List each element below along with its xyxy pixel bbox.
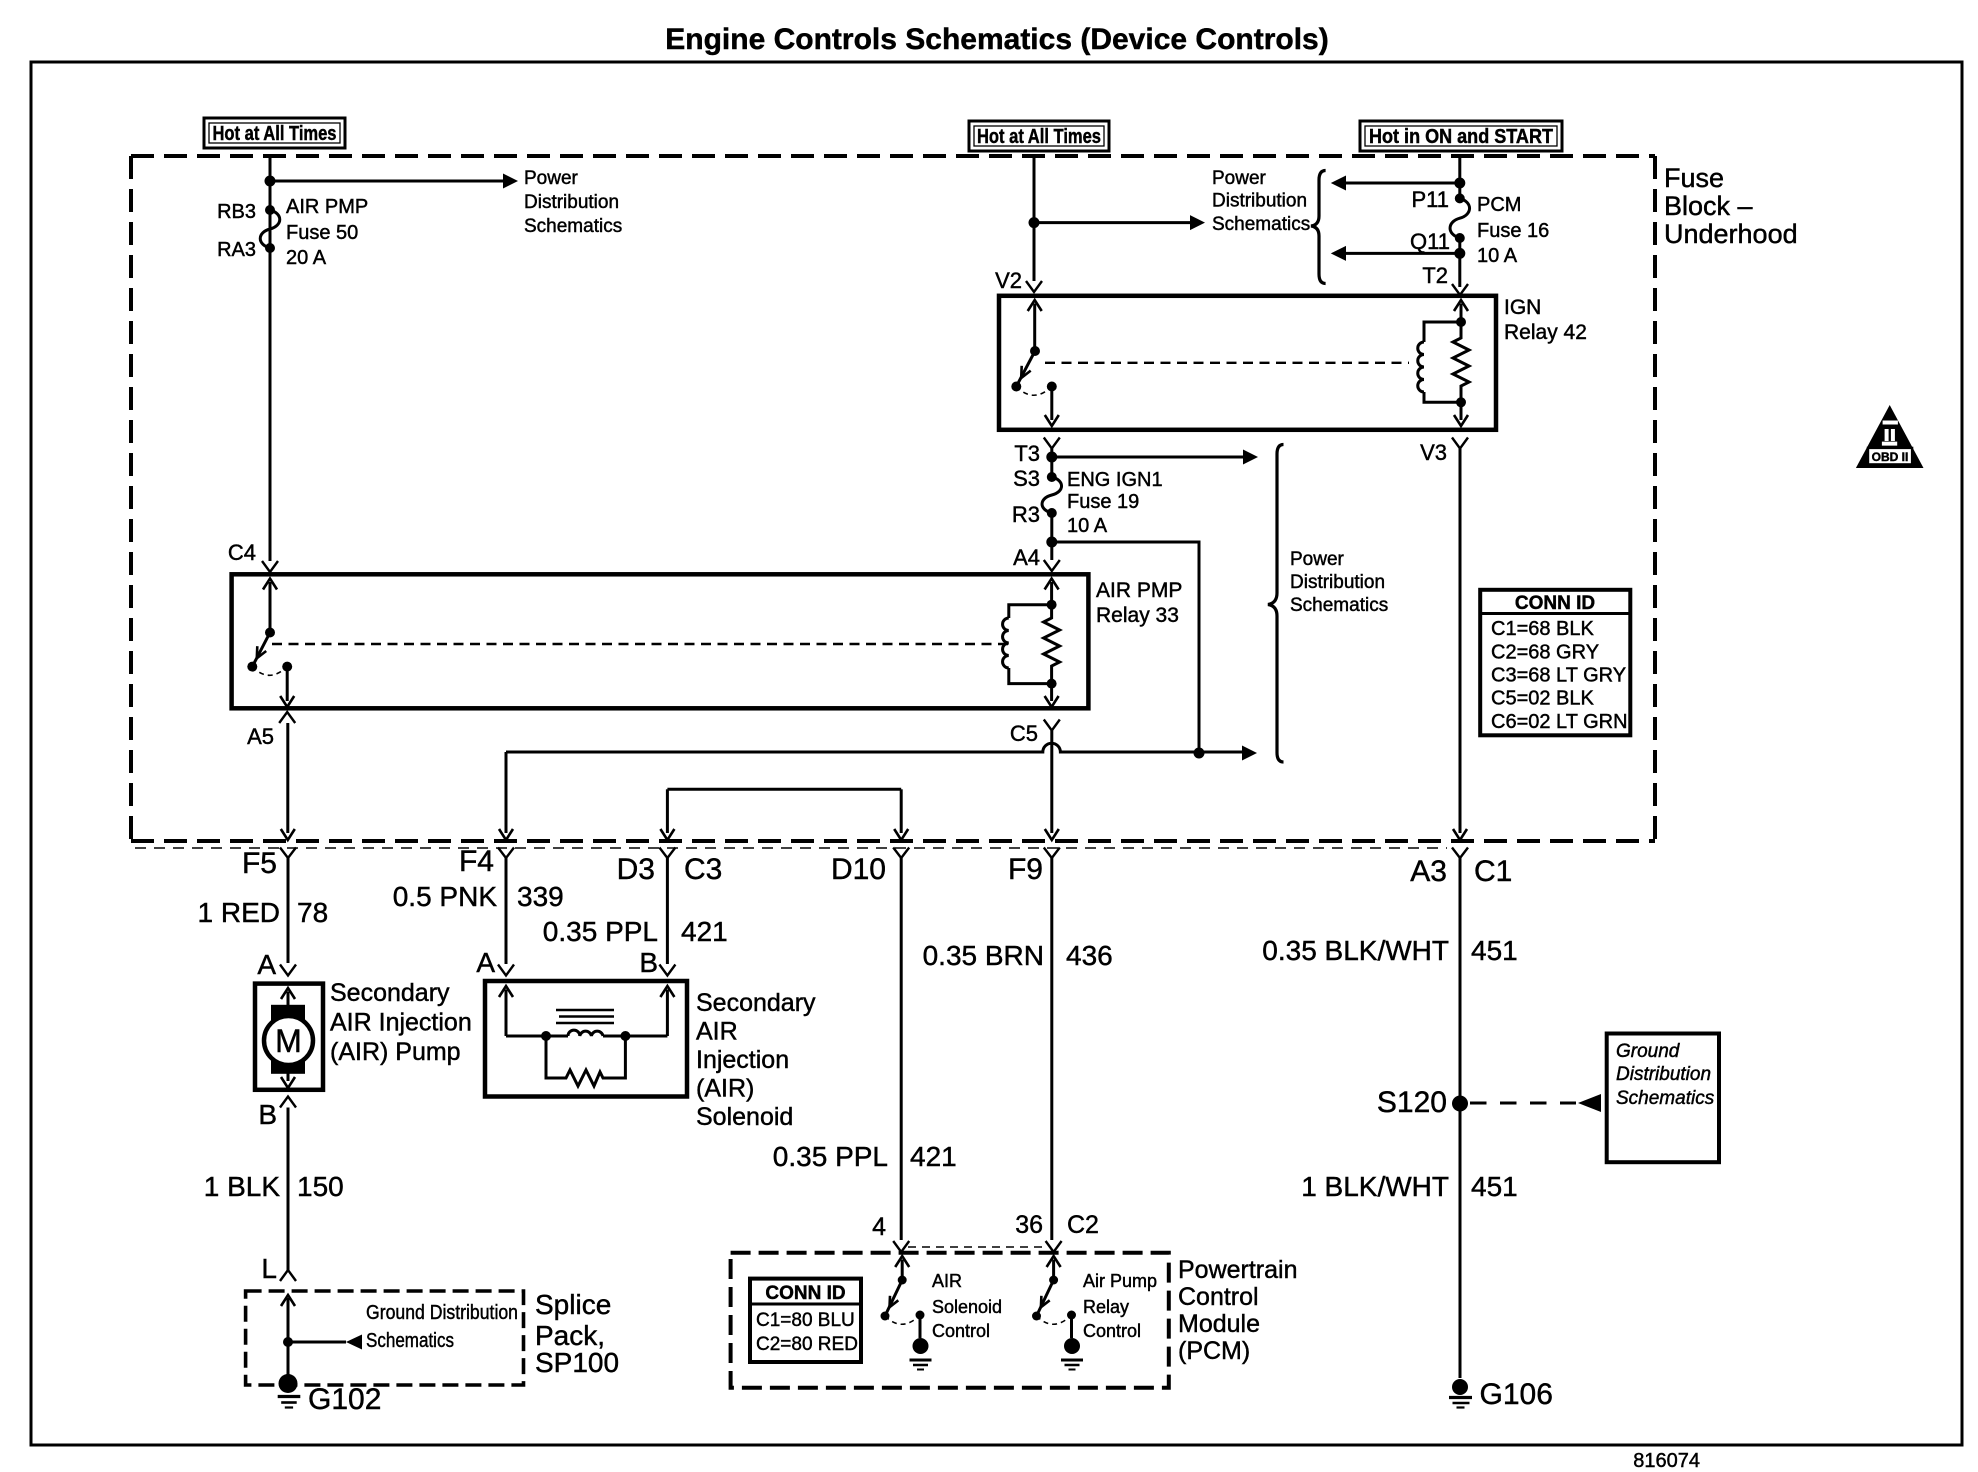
node A4: [1046, 537, 1057, 548]
svg-text:Underhood: Underhood: [1664, 219, 1798, 249]
svg-text:Ground Distribution: Ground Distribution: [366, 1302, 518, 1324]
relay 42 inductor branch: [1424, 322, 1461, 402]
svg-text:20 A: 20 A: [286, 247, 327, 269]
svg-text:0.35 BRN: 0.35 BRN: [923, 940, 1044, 971]
svg-text:451: 451: [1471, 935, 1518, 966]
svg-text:RB3: RB3: [217, 201, 256, 223]
svg-text:Schematics: Schematics: [1616, 1088, 1715, 1109]
dashed ref wire S120: [1470, 1102, 1576, 1105]
node T3 tap: [1046, 452, 1057, 463]
relay 42 resistor: [1453, 322, 1469, 402]
svg-text:ENG IGN1: ENG IGN1: [1067, 469, 1163, 491]
svg-text:L: L: [261, 1253, 277, 1284]
svg-text:V3: V3: [1420, 440, 1447, 465]
svg-text:Power: Power: [1290, 549, 1345, 570]
svg-text:421: 421: [910, 1141, 957, 1172]
svg-text:(PCM): (PCM): [1178, 1337, 1250, 1365]
relay box AIR PMP Relay 33: [232, 574, 1089, 708]
svg-text:G106: G106: [1480, 1378, 1553, 1411]
svg-text:B: B: [258, 1099, 277, 1130]
relay box IGN Relay 42: [999, 296, 1496, 430]
wire P11/Q11: [1458, 156, 1461, 287]
svg-text:G102: G102: [308, 1383, 381, 1416]
svg-text:Secondary: Secondary: [330, 979, 450, 1007]
wire D10 to PCM pin 4, 0.35 PPL 421: [900, 858, 903, 1240]
pin B pump: [280, 1097, 296, 1108]
relay 33 inductor branch: [1009, 605, 1052, 684]
relay 42 coil top node: [1456, 317, 1466, 327]
svg-text:C6=02 LT GRN: C6=02 LT GRN: [1491, 711, 1628, 733]
solenoid coil nodes: [541, 1031, 551, 1041]
fuse block dashed border bottom: [131, 839, 1655, 843]
svg-text:Block –: Block –: [1664, 191, 1753, 221]
arrow T3 to power distribution: [1052, 456, 1246, 459]
node S120: [1452, 1096, 1468, 1112]
svg-text:Control: Control: [1178, 1283, 1259, 1311]
svg-text:Module: Module: [1178, 1310, 1260, 1338]
svg-text:V2: V2: [995, 268, 1022, 293]
svg-text:Fuse 19: Fuse 19: [1067, 491, 1139, 513]
solenoid resistor loop: [546, 1036, 625, 1086]
svg-text:P11: P11: [1411, 187, 1449, 212]
relay 42 coil bottom node: [1456, 397, 1466, 407]
PCM dashed box: [731, 1253, 1169, 1388]
svg-text:CONN ID: CONN ID: [765, 1283, 845, 1304]
splice interior arrow: [281, 1295, 295, 1306]
brace for PCM fuse feeds: [1311, 171, 1326, 284]
wire D3 to solenoid B, 0.35 PPL 421: [666, 858, 669, 964]
svg-text:(AIR) Pump: (AIR) Pump: [330, 1038, 461, 1066]
wire T3 down: [1050, 449, 1053, 478]
svg-text:T3: T3: [1014, 441, 1040, 466]
svg-text:C2: C2: [1067, 1211, 1099, 1239]
relay 33 switch throw dashed arc: [252, 667, 287, 676]
node RB3: [265, 205, 275, 215]
svg-text:Engine Controls Schematics (De: Engine Controls Schematics (Device Contr…: [665, 23, 1328, 56]
svg-text:C2=80 RED: C2=80 RED: [756, 1334, 858, 1355]
svg-text:D3: D3: [617, 853, 655, 886]
solenoid interior arrows: [499, 986, 513, 997]
svg-text:150: 150: [297, 1171, 344, 1202]
svg-text:C1=80 BLU: C1=80 BLU: [756, 1310, 855, 1331]
splice ground ref arrow: [288, 1341, 346, 1344]
wire V2 hot feed center: [1033, 156, 1036, 281]
svg-text:Q11: Q11: [1410, 229, 1450, 254]
svg-text:A: A: [257, 949, 276, 980]
wire C5 to F9: [1050, 731, 1053, 834]
svg-text:Relay 42: Relay 42: [1504, 321, 1587, 344]
svg-text:RA3: RA3: [217, 239, 256, 261]
PCM connector thin dashed line: [908, 1246, 1046, 1248]
svg-text:T2: T2: [1422, 263, 1448, 288]
svg-text:Secondary: Secondary: [696, 989, 816, 1017]
svg-text:Powertrain: Powertrain: [1178, 1256, 1298, 1284]
wire V3 to A3: [1459, 449, 1462, 834]
svg-text:CONN ID: CONN ID: [1515, 593, 1595, 614]
svg-text:816074: 816074: [1633, 1450, 1700, 1472]
svg-text:AIR: AIR: [696, 1018, 738, 1046]
svg-text:A5: A5: [247, 724, 274, 749]
svg-text:S120: S120: [1377, 1086, 1447, 1119]
relay 33 coil top node: [1047, 600, 1057, 610]
wire arrow to power distribution (center): [1034, 221, 1193, 224]
wire PCM jumper D3 to D10: [667, 788, 901, 791]
node V2 power tap: [1029, 217, 1040, 228]
svg-text:36: 36: [1015, 1211, 1043, 1239]
svg-text:78: 78: [297, 897, 328, 928]
svg-text:S3: S3: [1013, 466, 1040, 491]
wire R3 to A4: [1050, 513, 1053, 560]
svg-text:(AIR): (AIR): [696, 1075, 754, 1103]
fuse PCM Fuse 16 10 A: [1455, 193, 1465, 203]
relay 33 actuating dashed link: [272, 643, 1009, 645]
CONN ID table (fuse block): [1480, 590, 1630, 736]
svg-text:Solenoid: Solenoid: [696, 1103, 793, 1131]
svg-text:Power: Power: [1212, 168, 1267, 189]
svg-text:F5: F5: [242, 847, 277, 880]
pin F9 connector fork: [1044, 848, 1060, 859]
svg-text:Ground: Ground: [1616, 1041, 1681, 1062]
relay 33 coil entry arrow: [1045, 579, 1059, 590]
svg-text:Distribution: Distribution: [1616, 1064, 1711, 1085]
svg-text:Fuse 50: Fuse 50: [286, 222, 358, 244]
PCM switch AIR solenoid control: [895, 1256, 909, 1267]
svg-text:Distribution: Distribution: [524, 192, 619, 213]
svg-text:1 BLK/WHT: 1 BLK/WHT: [1301, 1171, 1449, 1202]
svg-text:Schematics: Schematics: [366, 1330, 454, 1352]
svg-text:Relay: Relay: [1083, 1297, 1129, 1317]
node junction at power tap: [265, 176, 276, 187]
ref box ground distribution schematics: [1607, 1034, 1719, 1163]
splice junction node: [283, 1337, 293, 1347]
svg-text:339: 339: [517, 881, 564, 912]
wire F5 to pump pin A, 1 RED 78: [287, 858, 290, 963]
svg-text:1 BLK: 1 BLK: [204, 1171, 281, 1202]
wire A3 to S120, 0.35 BLK/WHT 451: [1459, 858, 1462, 1378]
svg-text:Hot at All Times: Hot at All Times: [213, 123, 337, 145]
pin A3 C1 connector fork: [1452, 848, 1468, 859]
svg-text:0.35 PPL: 0.35 PPL: [543, 916, 658, 947]
ground G106: [1452, 1379, 1468, 1395]
svg-text:C3=68 LT GRY: C3=68 LT GRY: [1491, 665, 1626, 687]
svg-text:D10: D10: [831, 853, 886, 886]
svg-text:SP100: SP100: [535, 1347, 619, 1378]
pin F5 connector fork: [280, 848, 296, 859]
pump interior arrow top: [281, 988, 295, 999]
svg-text:A4: A4: [1013, 545, 1040, 570]
relay 42 coil entry arrow: [1454, 300, 1468, 311]
label box Hot at All Times (left): [204, 118, 345, 148]
svg-text:C4: C4: [228, 540, 256, 565]
fuse block dashed border right: [1653, 156, 1657, 841]
svg-text:Distribution: Distribution: [1290, 572, 1385, 593]
node junction at A4 branch: [1194, 748, 1205, 759]
wire F9 to PCM pin 36, 0.35 BRN 436: [1050, 858, 1053, 1240]
wire power distribution tap arrow: [270, 180, 505, 183]
splice pack dashed box: [246, 1291, 524, 1385]
svg-text:C5=02 BLK: C5=02 BLK: [1491, 688, 1595, 710]
arrow P11 feed: [1343, 182, 1460, 185]
wire A4 branch right: [1052, 542, 1199, 753]
svg-text:Control: Control: [1083, 1321, 1141, 1341]
svg-text:0.35 PPL: 0.35 PPL: [773, 1141, 888, 1172]
svg-text:436: 436: [1066, 940, 1113, 971]
wire F4 to solenoid A, 0.5 PNK 339: [505, 858, 508, 964]
svg-text:Relay 33: Relay 33: [1096, 604, 1179, 627]
svg-text:IGN: IGN: [1504, 296, 1541, 319]
svg-text:Fuse: Fuse: [1664, 163, 1724, 193]
svg-text:Control: Control: [932, 1321, 990, 1341]
svg-text:Injection: Injection: [696, 1046, 789, 1074]
relay 33 coil bottom node: [1047, 679, 1057, 689]
fuse block dashed border left: [129, 156, 133, 841]
svg-text:Solenoid: Solenoid: [932, 1297, 1002, 1317]
svg-text:C1=68 BLK: C1=68 BLK: [1491, 618, 1595, 640]
svg-text:OBD II: OBD II: [1872, 450, 1909, 464]
pin F4 connector fork: [498, 848, 514, 859]
svg-text:A: A: [476, 947, 495, 978]
brace power distribution (center): [1268, 445, 1284, 763]
pin D3 C3 connector fork: [659, 848, 675, 859]
svg-text:AIR PMP: AIR PMP: [286, 196, 368, 218]
relay 33 switch arm: [263, 579, 277, 590]
svg-text:AIR Injection: AIR Injection: [330, 1009, 472, 1037]
svg-text:Air Pump: Air Pump: [1083, 1271, 1157, 1291]
svg-text:PCM: PCM: [1477, 194, 1521, 216]
svg-text:Power: Power: [524, 168, 579, 189]
pump interior arrow bottom: [287, 1071, 290, 1081]
ground G102: [279, 1374, 298, 1393]
motor M symbol: [271, 1005, 305, 1023]
fuse AIR PMP Fuse 50 20 A: [260, 210, 280, 248]
svg-text:C2=68 GRY: C2=68 GRY: [1491, 642, 1599, 664]
PCM switch air pump relay control: [1047, 1256, 1061, 1267]
component box secondary AIR injection solenoid: [485, 981, 687, 1097]
svg-text:Schematics: Schematics: [524, 216, 622, 237]
solenoid core bars: [556, 1010, 614, 1023]
svg-text:C5: C5: [1010, 721, 1038, 746]
wire solenoid feed with hop over C5: [506, 743, 1245, 752]
CONN ID table (PCM): [750, 1279, 861, 1362]
relay 42 actuating dashed link: [1045, 362, 1409, 364]
svg-text:Hot in ON and START: Hot in ON and START: [1369, 126, 1553, 148]
wire down to F4: [505, 752, 508, 833]
svg-text:R3: R3: [1012, 502, 1040, 527]
svg-text:AIR: AIR: [932, 1271, 962, 1291]
svg-text:C3: C3: [684, 853, 722, 886]
svg-text:1 RED: 1 RED: [198, 897, 280, 928]
OBD II symbol triangle: [1856, 405, 1924, 468]
svg-text:0.35 BLK/WHT: 0.35 BLK/WHT: [1262, 935, 1449, 966]
label box Hot at All Times (center): [969, 121, 1109, 151]
wire A5 to F5: [286, 723, 289, 833]
relay 33 resistor: [1044, 605, 1060, 684]
connector interface thin dashed line: [135, 847, 1447, 849]
fuse block dashed border top: [131, 154, 1655, 158]
solenoid coil winding: [506, 1035, 568, 1038]
svg-text:A3: A3: [1410, 855, 1447, 888]
label box Hot in ON and START: [1360, 121, 1562, 151]
fuse ENG IGN1 Fuse 19 10 A: [1047, 472, 1057, 482]
svg-text:4: 4: [872, 1213, 886, 1241]
wire B to L, 1 BLK 150: [287, 1108, 290, 1271]
svg-text:451: 451: [1471, 1171, 1518, 1202]
svg-text:Distribution: Distribution: [1212, 191, 1307, 212]
svg-text:421: 421: [681, 916, 728, 947]
wire W1 hot feed left: [269, 156, 272, 561]
component box secondary AIR injection pump: [255, 984, 323, 1090]
svg-text:M: M: [275, 1023, 302, 1059]
svg-text:C1: C1: [1474, 855, 1512, 888]
svg-text:AIR PMP: AIR PMP: [1096, 579, 1182, 602]
arrow Q11 feed: [1343, 252, 1460, 255]
svg-text:F9: F9: [1008, 853, 1043, 886]
pin D10 connector fork: [893, 848, 909, 859]
svg-text:F4: F4: [459, 845, 494, 878]
relay 42 switch throw dashed arc: [1016, 387, 1052, 396]
svg-text:Splice: Splice: [535, 1289, 611, 1320]
svg-text:10 A: 10 A: [1477, 245, 1518, 267]
svg-text:0.5 PNK: 0.5 PNK: [393, 881, 498, 912]
svg-text:Schematics: Schematics: [1290, 595, 1388, 616]
svg-text:Fuse 16: Fuse 16: [1477, 220, 1549, 242]
svg-text:Hot at All Times: Hot at All Times: [977, 126, 1101, 148]
relay 42 switch arm: [1028, 300, 1042, 311]
svg-text:B: B: [639, 947, 658, 978]
svg-text:Schematics: Schematics: [1212, 214, 1310, 235]
svg-text:10 A: 10 A: [1067, 515, 1108, 537]
